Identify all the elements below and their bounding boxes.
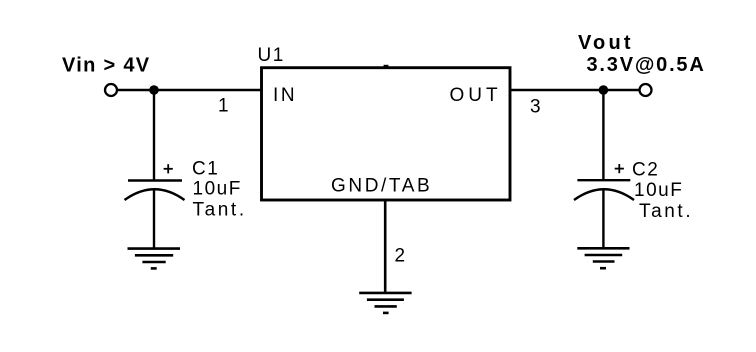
svg-text:3: 3 [530, 97, 542, 118]
wire U1 GND pin down [384, 200, 387, 293]
wire input terminal to node A [118, 89, 155, 91]
svg-text:Vout: Vout [578, 32, 634, 54]
ground (middle, below U1) [359, 293, 411, 313]
wire node B down to C2 [602, 90, 604, 181]
svg-text:Tant.: Tant. [193, 199, 247, 220]
svg-text:Vin > 4V: Vin > 4V [62, 54, 150, 76]
node B junction dot [599, 85, 609, 95]
capacitor C2 [574, 180, 634, 200]
wire U1 OUT pin to node B [510, 89, 603, 91]
svg-text:2: 2 [395, 245, 407, 266]
input terminal [105, 84, 117, 96]
wire C2 to ground [602, 190, 604, 249]
U1 top-center anchor tick [384, 65, 389, 69]
wire node B to output terminal [603, 89, 639, 91]
svg-text:10uF: 10uF [193, 178, 242, 199]
svg-text:OUT: OUT [450, 85, 502, 106]
svg-text:1: 1 [218, 96, 230, 117]
svg-text:C1: C1 [192, 158, 219, 179]
svg-text:GND/TAB: GND/TAB [331, 176, 432, 197]
node A junction dot [149, 85, 159, 95]
svg-text:U1: U1 [258, 45, 285, 66]
regulator U1 box [262, 68, 511, 200]
ground (right, below C2) [577, 248, 629, 268]
wire C1 to ground [153, 190, 155, 249]
C1 plus polarity mark [164, 164, 173, 173]
svg-text:3.3V@0.5A: 3.3V@0.5A [587, 54, 706, 76]
svg-text:C2: C2 [632, 159, 659, 180]
C2 plus polarity mark [615, 164, 624, 173]
wire node A down to C1 [153, 90, 155, 181]
svg-text:IN: IN [273, 85, 297, 106]
svg-text:Tant.: Tant. [639, 201, 693, 222]
output terminal [640, 84, 652, 96]
wire node A to U1 IN pin [154, 89, 261, 91]
svg-text:10uF: 10uF [634, 180, 683, 201]
capacitor C1 [125, 181, 185, 201]
C1 value labels [192, 158, 247, 220]
C2 value labels [632, 159, 693, 222]
ground (left, below C1) [128, 249, 181, 269]
